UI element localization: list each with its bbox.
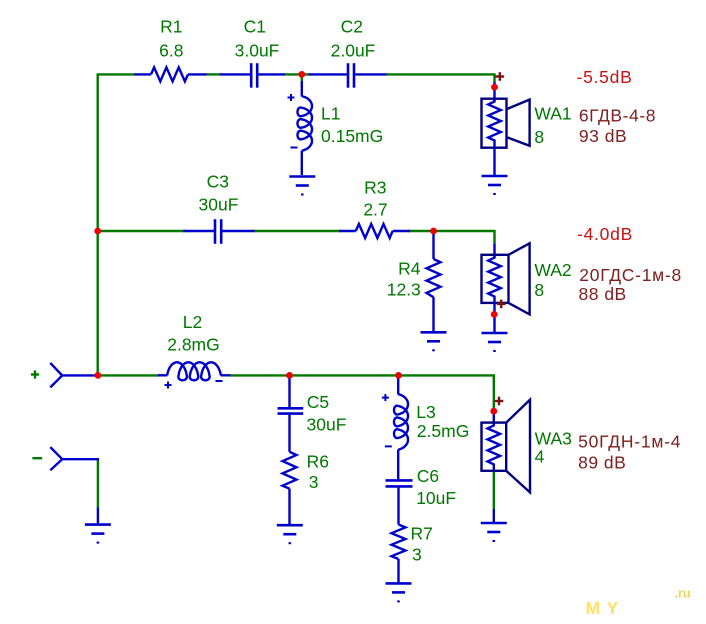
capacitor C5 xyxy=(278,375,304,451)
svg-text:0.15mG: 0.15mG xyxy=(321,126,383,146)
resistor R1 xyxy=(135,67,207,81)
wire middle row horizontal xyxy=(97,230,185,232)
WA1 coil zigzag xyxy=(488,100,501,147)
capacitor C3 xyxy=(183,219,254,244)
capacitor C2 xyxy=(309,63,387,87)
svg-text:C6: C6 xyxy=(417,466,439,486)
ground under WA2 xyxy=(482,333,508,351)
node C5 junction xyxy=(286,372,293,379)
L3 minus mark xyxy=(385,445,392,447)
svg-text:R3: R3 xyxy=(364,178,386,198)
node R3/R4/WA2 junction xyxy=(430,228,437,235)
capacitor C1 xyxy=(220,63,285,87)
minus input chevron xyxy=(50,447,99,470)
inductor L1 xyxy=(298,81,313,175)
L2 minus mark xyxy=(216,380,223,382)
svg-text:10uF: 10uF xyxy=(416,488,456,508)
inductor L3 xyxy=(394,375,408,479)
svg-text:R1: R1 xyxy=(160,17,182,37)
plus input chevron xyxy=(50,363,98,388)
svg-text:L2: L2 xyxy=(183,312,202,332)
resistor R3 xyxy=(339,224,410,238)
svg-text:WA1: WA1 xyxy=(534,104,571,124)
wire WA1 drop xyxy=(493,73,495,82)
WA2 horn xyxy=(509,243,530,314)
inductor L2 xyxy=(158,362,230,380)
svg-text:6.8: 6.8 xyxy=(159,41,183,61)
node L3 junction xyxy=(395,372,402,379)
WA3 plus mark xyxy=(495,397,504,406)
node WA1 top dot xyxy=(491,84,498,91)
minus input terminal mark xyxy=(32,457,42,459)
svg-text:2.0uF: 2.0uF xyxy=(331,41,376,61)
svg-text:C1: C1 xyxy=(244,17,266,37)
wire minus input vertical xyxy=(97,458,99,507)
WA1 body rect xyxy=(482,99,507,148)
svg-text:88 dB: 88 dB xyxy=(579,284,627,304)
WA2 bottom lead xyxy=(493,303,495,333)
wire WA3 bottom stub xyxy=(493,470,495,509)
svg-text:L3: L3 xyxy=(416,402,435,422)
WA3 coil zigzag xyxy=(488,424,501,470)
svg-text:L1: L1 xyxy=(321,104,340,124)
svg-text:WA2: WA2 xyxy=(534,260,571,280)
svg-text:2.7: 2.7 xyxy=(363,200,387,220)
ground under R7 xyxy=(386,583,412,601)
svg-text:C5: C5 xyxy=(307,392,329,412)
resistor R6 xyxy=(283,452,297,525)
svg-text:93 dB: 93 dB xyxy=(579,126,627,146)
WA2 body rect xyxy=(482,255,509,303)
svg-text:R4: R4 xyxy=(398,259,421,279)
svg-text:R7: R7 xyxy=(411,524,433,544)
svg-text:MY: MY xyxy=(586,598,625,618)
svg-text:3.0uF: 3.0uF xyxy=(235,41,280,61)
svg-text:50ГДН-1м-4: 50ГДН-1м-4 xyxy=(578,432,681,452)
WA3 bottom lead xyxy=(493,509,495,523)
wire WA2 drop xyxy=(493,230,495,243)
speaker WA1 xyxy=(493,82,495,101)
node input junction xyxy=(95,372,102,379)
svg-text:8: 8 xyxy=(534,127,544,147)
WA1 bottom lead xyxy=(493,148,495,176)
ground under R6 xyxy=(277,525,303,543)
svg-text:30uF: 30uF xyxy=(307,415,347,435)
svg-text:-4.0dB: -4.0dB xyxy=(577,224,633,244)
node WA2 bottom dot xyxy=(491,311,498,318)
speaker WA2 xyxy=(493,243,495,258)
L1 plus mark xyxy=(288,94,295,101)
ground under R4 xyxy=(421,332,447,350)
svg-text:2.5mG: 2.5mG xyxy=(417,421,470,441)
WA1 plus mark xyxy=(496,72,505,81)
plus input terminal mark xyxy=(31,370,39,378)
svg-text:WA3: WA3 xyxy=(535,428,572,448)
svg-text:20ГДС-1м-8: 20ГДС-1м-8 xyxy=(579,265,682,285)
ground under WA1 xyxy=(482,176,508,194)
capacitor C6 xyxy=(386,480,413,524)
node WA3 top dot xyxy=(490,408,497,415)
wire bottom row horizontal xyxy=(97,374,160,376)
L1 minus mark xyxy=(291,147,298,149)
WA2 coil zigzag xyxy=(488,256,501,302)
WA2 plus mark xyxy=(497,300,506,309)
wire top row horizontal xyxy=(97,73,136,75)
wire left vertical bus xyxy=(96,74,98,375)
wire WA3 drop xyxy=(493,374,495,411)
WA3 body rect xyxy=(482,423,507,471)
svg-text:.ru: .ru xyxy=(675,587,691,601)
node left-middle junction xyxy=(94,228,101,235)
WA3 top lead xyxy=(493,411,495,424)
svg-text:12.3: 12.3 xyxy=(387,280,421,300)
svg-text:4: 4 xyxy=(535,446,545,466)
ground under minus input xyxy=(85,525,111,543)
svg-text:2.8mG: 2.8mG xyxy=(167,335,220,355)
WA3 horn xyxy=(506,400,530,493)
svg-text:C2: C2 xyxy=(341,17,363,37)
svg-text:3: 3 xyxy=(309,472,319,492)
wire L1 stub xyxy=(301,74,303,81)
svg-text:-5.5dB: -5.5dB xyxy=(577,67,633,87)
resistor R4 xyxy=(427,231,441,332)
svg-text:R6: R6 xyxy=(307,452,329,472)
WA1 horn xyxy=(507,100,530,146)
svg-text:8: 8 xyxy=(534,280,544,300)
ground under WA3 xyxy=(481,523,507,541)
resistor R7 xyxy=(392,525,406,584)
svg-text:3: 3 xyxy=(412,544,422,564)
svg-text:C3: C3 xyxy=(207,172,229,192)
L3 plus mark xyxy=(382,394,389,401)
svg-text:30uF: 30uF xyxy=(199,195,239,215)
svg-text:6ГДВ-4-8: 6ГДВ-4-8 xyxy=(579,106,656,126)
node C1/C2/L1 junction dot xyxy=(298,71,305,78)
L2 plus mark xyxy=(165,382,172,389)
svg-text:89 dB: 89 dB xyxy=(578,452,626,472)
ground under L1 xyxy=(289,177,315,195)
